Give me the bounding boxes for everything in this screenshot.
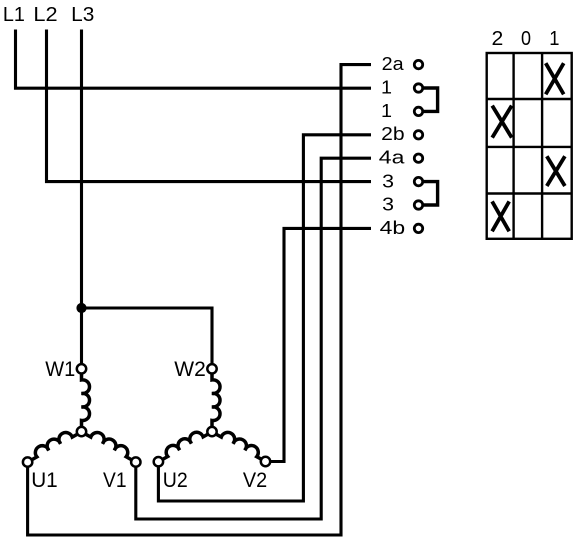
svg-text:2: 2 — [492, 28, 504, 50]
svg-text:2b: 2b — [381, 124, 405, 144]
svg-text:W2: W2 — [174, 358, 206, 381]
svg-text:W1: W1 — [45, 358, 75, 381]
svg-text:1: 1 — [381, 101, 392, 121]
svg-text:V1: V1 — [103, 469, 127, 492]
svg-text:U1: U1 — [31, 469, 58, 492]
svg-text:0: 0 — [521, 28, 531, 50]
svg-text:L2: L2 — [33, 4, 57, 26]
svg-text:4a: 4a — [379, 148, 406, 168]
svg-text:L3: L3 — [71, 4, 94, 26]
svg-text:2a: 2a — [382, 54, 405, 74]
svg-text:1: 1 — [549, 28, 559, 50]
svg-text:4b: 4b — [380, 218, 406, 238]
svg-text:1: 1 — [381, 78, 392, 98]
svg-text:L1: L1 — [3, 4, 25, 26]
svg-text:U2: U2 — [163, 469, 188, 492]
svg-text:3: 3 — [382, 171, 394, 191]
svg-text:V2: V2 — [243, 469, 267, 492]
svg-text:3: 3 — [382, 195, 394, 215]
